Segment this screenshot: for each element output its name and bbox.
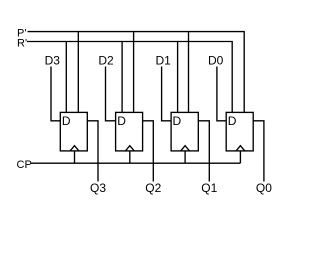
wire clock U4 [239, 151, 241, 163]
wire clear pin U2 [121, 42, 123, 113]
wire Q3 output [87, 121, 98, 182]
svg-text:D2: D2 [98, 54, 114, 68]
svg-text:Q3: Q3 [90, 181, 106, 195]
wire preset pin U2 [133, 32, 135, 113]
wire clear pin U1 [65, 42, 67, 113]
svg-text:D: D [228, 114, 237, 128]
svg-text:D3: D3 [45, 54, 61, 68]
wire D1 input [162, 67, 171, 121]
flip-flop U4 [226, 112, 253, 150]
svg-text:D: D [117, 114, 126, 128]
flip-flop U1 [60, 112, 87, 150]
wire Q2 output [143, 121, 154, 182]
flip-flop U2 [116, 112, 143, 150]
wire preset pin U3 [188, 32, 190, 113]
svg-text:D: D [62, 114, 71, 128]
wire Q0 output [253, 121, 264, 182]
wire D0 input [217, 67, 226, 121]
wire clear pin U3 [177, 42, 179, 113]
wire D2 input [106, 67, 116, 121]
svg-text:D: D [173, 114, 182, 128]
clock triangle U2 [125, 146, 134, 151]
svg-text:CP: CP [17, 159, 32, 171]
svg-text:Q0: Q0 [256, 181, 272, 195]
wire R' rail [27, 42, 232, 113]
wire clock U2 [129, 151, 131, 163]
svg-text:R': R' [17, 38, 27, 50]
clock triangle U4 [236, 146, 245, 151]
wire clock U1 [74, 151, 76, 163]
svg-text:Q2: Q2 [145, 181, 161, 195]
flip-flop U3 [171, 112, 198, 150]
wire P' rail [28, 32, 245, 113]
wire D3 input [51, 67, 60, 121]
wire Q1 output [198, 121, 209, 182]
svg-text:Q1: Q1 [201, 181, 217, 195]
wire clock U3 [184, 151, 186, 163]
wire CP rail [31, 162, 240, 164]
clock triangle U3 [181, 146, 190, 151]
svg-text:D0: D0 [208, 54, 224, 68]
wire preset pin U1 [77, 32, 79, 113]
clock triangle U1 [70, 146, 79, 151]
svg-text:D1: D1 [156, 54, 172, 68]
